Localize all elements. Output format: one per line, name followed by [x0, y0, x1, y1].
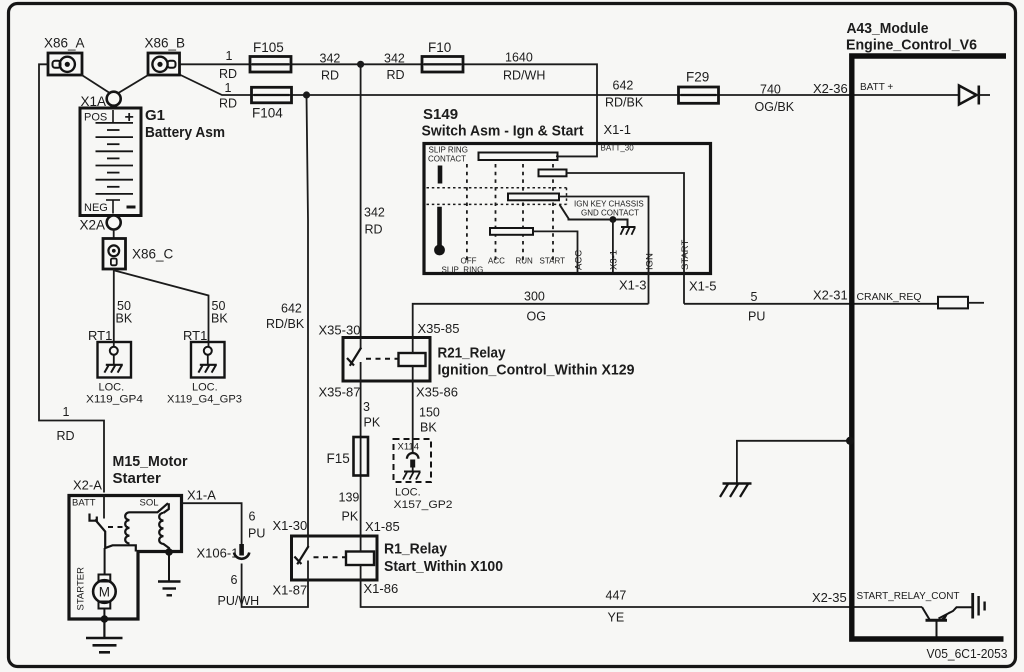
wire 50 BK left to RT1: [114, 269, 133, 347]
wire 342 RD vertical to R21 X35-30: [360, 64, 362, 337]
wire label 642 RD/BK top: [605, 79, 644, 110]
svg-text:X1-1: X1-1: [604, 122, 631, 137]
switch S149 box: [424, 144, 711, 274]
svg-text:STARTER: STARTER: [76, 567, 87, 611]
S149 contact bar ACC: [490, 228, 533, 235]
pin X1-30: [273, 518, 308, 533]
svg-text:X3-1: X3-1: [609, 250, 620, 270]
wire X86_A left drop to M15 X2-A: [39, 64, 104, 492]
svg-text:V05_6C1-2053: V05_6C1-2053: [927, 647, 1008, 661]
A43 transistor supply bars: [973, 593, 985, 619]
svg-text:X119_GP4: X119_GP4: [86, 394, 143, 406]
M15 motor ground: [86, 619, 123, 652]
svg-text:5: 5: [751, 290, 758, 304]
S149 ACC output wire: [533, 231, 585, 272]
wire label 1 RD left drop: [57, 405, 75, 443]
svg-text:X114: X114: [398, 442, 419, 453]
svg-text:X86_A: X86_A: [44, 36, 85, 51]
A43 CRANK_REQ label: [857, 292, 922, 303]
svg-text:1: 1: [226, 49, 233, 63]
wire label 1640 RD/WH: [503, 51, 545, 83]
motor M15 box outline: [69, 496, 182, 620]
A43 crank resistor: [938, 297, 984, 309]
S149 chassis ground symbol: [621, 227, 636, 235]
svg-text:342: 342: [364, 206, 385, 220]
svg-text:X1-A: X1-A: [187, 488, 216, 503]
wire X2A to X86_C: [113, 230, 115, 239]
svg-text:IGN KEY CHASSIS: IGN KEY CHASSIS: [574, 200, 644, 209]
M15 BATT label: [72, 498, 96, 509]
connector X106-1: [197, 544, 250, 561]
node X2A ring terminal: [80, 216, 121, 233]
S149 dashed key zone: [427, 188, 567, 205]
relay R1 labels: [384, 541, 503, 576]
svg-text:RD: RD: [219, 97, 237, 111]
A43 internal ground wire: [737, 441, 849, 484]
svg-text:X2-31: X2-31: [813, 288, 848, 303]
relay R21 labels: [438, 345, 635, 379]
svg-text:LOC.: LOC.: [192, 382, 218, 394]
diagram number V05_6C1-2053: [927, 647, 1008, 661]
svg-text:RD: RD: [365, 223, 383, 237]
M15 solenoid ground: [158, 552, 181, 595]
wire row2 RD from X86_B diagonal to F104 to F29 to A43 BATT: [180, 75, 852, 96]
A43 BATT + label: [860, 82, 893, 93]
svg-text:F104: F104: [252, 106, 283, 121]
S149 dashed position line ACC: [488, 164, 505, 266]
label G1 Battery Asm: [145, 107, 225, 141]
svg-text:X2-35: X2-35: [812, 590, 847, 605]
A43 output transistor: [922, 607, 972, 637]
relay R1 box: [292, 536, 378, 580]
pin X35-86: [416, 385, 458, 400]
svg-text:BK: BK: [420, 421, 437, 435]
M15 starter motor: [93, 575, 116, 620]
svg-text:RD: RD: [321, 69, 339, 83]
svg-text:BATT: BATT: [72, 498, 96, 509]
pin X35-87: [319, 385, 361, 400]
S149 IGN output wire to 300 OG: [559, 197, 656, 304]
relay R21 coil: [399, 338, 426, 382]
wire label 642 RD/BK vertical: [266, 302, 305, 332]
wire label 1 RD row2: [219, 81, 237, 111]
svg-text:NEG: NEG: [84, 202, 108, 214]
svg-text:BK: BK: [116, 312, 133, 326]
wire 150 BK X35-86 to X114: [413, 381, 440, 453]
svg-text:X35-30: X35-30: [319, 323, 361, 338]
svg-text:Start_Within X100: Start_Within X100: [384, 558, 503, 575]
svg-text:6: 6: [231, 573, 238, 587]
svg-text:IGN: IGN: [645, 253, 656, 270]
svg-text:X157_GP2: X157_GP2: [394, 499, 453, 511]
S149 START output wire to X1-5: [567, 173, 692, 304]
svg-text:X35-86: X35-86: [416, 385, 458, 400]
wire 447 YE X1-86 to X2-35: [361, 580, 922, 625]
A43 batt diode: [855, 86, 991, 105]
S149 key gnd contact pointer and line: [560, 205, 628, 228]
pin X35-85: [418, 321, 460, 336]
svg-text:CONTACT: CONTACT: [428, 155, 466, 164]
svg-text:ACC: ACC: [574, 250, 585, 270]
wire 5 PU from X1-5 to X2-31: [684, 290, 938, 324]
svg-text:150: 150: [419, 406, 440, 420]
M15 solenoid coil 2: [159, 503, 169, 552]
connector X86_B: [145, 36, 186, 76]
svg-text:START_RELAY_CONT: START_RELAY_CONT: [857, 591, 960, 602]
svg-text:Switch Asm - Ign & Start: Switch Asm - Ign & Start: [422, 123, 584, 140]
svg-text:X119_G4_GP3: X119_G4_GP3: [167, 394, 242, 406]
wire label 740 OG/BK: [755, 83, 795, 115]
svg-text:ACC: ACC: [488, 257, 505, 266]
svg-text:SLIP_RING: SLIP_RING: [442, 266, 484, 275]
svg-text:Battery Asm: Battery Asm: [145, 124, 225, 141]
wire 642 RD/BK vertical to R1 X1-30: [307, 95, 309, 536]
svg-text:X106-1: X106-1: [197, 546, 239, 561]
fuse F105: [250, 40, 291, 72]
M15 switch to solenoid dashes: [108, 526, 128, 528]
S149 ign key chassis gnd text: [574, 200, 644, 218]
wire 50 BK diagonal to right RT1: [115, 271, 229, 347]
S149 contact bar START feed: [539, 170, 567, 177]
junction node row2 x642: [303, 91, 310, 98]
fuse F104: [252, 87, 292, 120]
node X1A ring terminal: [81, 92, 121, 109]
svg-text:Starter: Starter: [113, 470, 162, 487]
svg-text:A43_Module: A43_Module: [847, 20, 929, 37]
M15 SOL label: [140, 498, 159, 509]
svg-text:F105: F105: [253, 40, 284, 55]
wire 6 PU/WH X106-1 to X1-87: [218, 564, 309, 609]
wire X1-A to X106-1: [182, 503, 266, 544]
chassis ground mid: [720, 484, 752, 498]
svg-text:RD: RD: [387, 68, 405, 82]
svg-text:3: 3: [363, 400, 370, 414]
svg-text:300: 300: [524, 290, 545, 304]
fuse F10: [422, 40, 463, 72]
svg-text:Engine_Control_V6: Engine_Control_V6: [846, 37, 977, 54]
S149 dashed position line RUN: [516, 164, 534, 266]
pin X2-35: [812, 590, 847, 605]
connector X86_A: [44, 36, 85, 76]
relay R1 switch: [294, 536, 308, 580]
svg-text:740: 740: [760, 83, 781, 97]
svg-text:X2-A: X2-A: [73, 478, 102, 493]
svg-text:RD: RD: [219, 67, 237, 81]
svg-text:X2-36: X2-36: [813, 81, 848, 96]
svg-text:X1-87: X1-87: [273, 583, 308, 598]
svg-text:CRANK_REQ: CRANK_REQ: [857, 292, 922, 303]
ground RT1 left: [86, 328, 143, 406]
svg-text:Ignition_Control_Within X129: Ignition_Control_Within X129: [438, 362, 635, 379]
M15 solenoid ground node: [165, 548, 173, 556]
wire diagonal X86_A to X1A: [81, 75, 111, 94]
pin X35-30: [319, 323, 361, 338]
svg-text:LOC.: LOC.: [395, 487, 421, 499]
relay R21 switch: [347, 338, 361, 382]
svg-text:RD/BK: RD/BK: [266, 317, 305, 331]
fuse F15: [327, 437, 369, 476]
svg-text:642: 642: [613, 79, 634, 93]
battery G1: [80, 108, 141, 216]
connector X114 dashed box: [394, 439, 432, 482]
svg-text:OFF: OFF: [461, 257, 477, 266]
M15 solenoid coil 1: [125, 503, 168, 543]
S149 dashed position line START: [540, 164, 566, 266]
S149 X3-1 output wire: [609, 220, 620, 273]
module A43 box: [852, 56, 1006, 639]
svg-text:342: 342: [320, 52, 341, 66]
M15 motor ground node: [101, 615, 109, 623]
connector X86_C: [103, 239, 174, 270]
wire label 342 RD seg1: [320, 52, 341, 83]
svg-text:PK: PK: [364, 416, 381, 430]
svg-text:S149: S149: [423, 106, 458, 123]
svg-text:X1-5: X1-5: [689, 279, 716, 294]
S149 label SLIP_RING: [442, 266, 484, 275]
svg-text:447: 447: [606, 589, 627, 603]
svg-text:M15_Motor: M15_Motor: [113, 453, 188, 470]
svg-text:F29: F29: [686, 70, 709, 85]
svg-text:139: 139: [339, 491, 360, 505]
pin X1-86: [364, 581, 399, 596]
wire label 342 RD vertical: [364, 206, 385, 237]
svg-text:F15: F15: [327, 451, 350, 466]
ground RT1 right: [167, 328, 242, 406]
svg-text:BK: BK: [211, 312, 228, 326]
svg-text:PU: PU: [248, 527, 265, 541]
svg-text:GND CONTACT: GND CONTACT: [581, 209, 639, 218]
svg-text:RT1: RT1: [183, 328, 207, 343]
S149 slip ring bar lower with node: [434, 207, 445, 256]
pin X1-1: [604, 122, 631, 137]
module A43 title: [846, 20, 977, 54]
pin X2-31: [813, 288, 848, 303]
svg-text:POS: POS: [84, 112, 107, 124]
svg-text:R1_Relay: R1_Relay: [384, 541, 448, 558]
svg-text:F10: F10: [428, 40, 451, 55]
wire diagonal X86_B to X1A: [118, 75, 150, 94]
relay R21 box: [343, 338, 430, 382]
svg-text:342: 342: [384, 52, 405, 66]
svg-text:RD/BK: RD/BK: [605, 96, 644, 110]
X114 location label: [394, 487, 453, 512]
svg-text:M: M: [99, 585, 110, 600]
svg-text:BATT_30: BATT_30: [601, 144, 635, 153]
pin X2-36: [813, 81, 848, 96]
svg-text:START: START: [680, 240, 691, 270]
S149 slip ring bar upper: [438, 166, 443, 184]
svg-text:X35-85: X35-85: [418, 321, 460, 336]
svg-text:6: 6: [249, 510, 256, 524]
relay R1 coil: [346, 536, 374, 580]
S149 slip ring contact text: [428, 146, 468, 164]
svg-text:R21_Relay: R21_Relay: [438, 345, 507, 362]
S149 contact bar key zone: [508, 194, 559, 201]
svg-text:YE: YE: [608, 611, 625, 625]
svg-text:RD: RD: [57, 429, 75, 443]
svg-text:1: 1: [63, 405, 70, 419]
svg-text:PU: PU: [748, 310, 765, 324]
switch S149 title: [422, 106, 584, 140]
svg-text:LOC.: LOC.: [99, 382, 125, 394]
S149 contact bar BATT_30: [479, 144, 635, 161]
wire label 1 RD row1: [219, 49, 237, 81]
svg-text:RUN: RUN: [516, 257, 534, 266]
fuse F29: [679, 70, 719, 104]
svg-text:PK: PK: [342, 510, 359, 524]
svg-text:SOL: SOL: [140, 498, 159, 509]
pin X1-5: [689, 279, 716, 294]
svg-text:X1-30: X1-30: [273, 518, 308, 533]
svg-text:X86_B: X86_B: [145, 36, 186, 51]
svg-text:RD/WH: RD/WH: [503, 69, 545, 83]
svg-text:START: START: [540, 257, 566, 266]
pin X1-87: [273, 583, 308, 598]
junction node row1 x342: [357, 61, 364, 68]
svg-text:X1-85: X1-85: [365, 519, 400, 534]
relay R21 coil link dashes: [366, 358, 398, 360]
svg-text:PU/WH: PU/WH: [218, 594, 260, 608]
svg-text:X1-3: X1-3: [619, 278, 646, 293]
svg-text:642: 642: [281, 302, 302, 316]
pin X1-A: [187, 488, 216, 503]
A43 START_RELAY_CONT label: [857, 591, 960, 602]
wire 300 OG from X1-3 to R21 X35-85: [413, 290, 649, 338]
wire row1 RD from X86_B to F105 to F10 to X1-1 drop: [179, 64, 597, 156]
S149 key gnd junction node: [610, 216, 617, 223]
wire 3 PK / 139 PK X35-87 to F15 to X1-85: [339, 381, 381, 536]
pin X1-3: [619, 278, 646, 293]
A43 edge ground node: [846, 437, 854, 445]
svg-text:OG/BK: OG/BK: [755, 100, 795, 114]
svg-text:1640: 1640: [505, 51, 533, 65]
M15 contactor switch: [90, 496, 136, 575]
svg-text:1: 1: [225, 81, 232, 95]
svg-text:OG: OG: [527, 310, 546, 324]
S149 dashed position line OFF: [461, 164, 477, 266]
pin X1-85: [365, 519, 400, 534]
svg-text:X2A: X2A: [80, 218, 106, 233]
motor M15 title: [113, 453, 188, 487]
S149 BATT_30 feed link: [556, 155, 597, 157]
svg-text:G1: G1: [145, 107, 165, 124]
svg-text:SLIP RING: SLIP RING: [429, 146, 468, 155]
relay R1 coil link dashes: [314, 556, 346, 558]
svg-text:X35-87: X35-87: [319, 385, 361, 400]
svg-text:X86_C: X86_C: [132, 247, 174, 262]
M15 STARTER rotated label: [76, 567, 87, 611]
svg-text:BATT +: BATT +: [860, 82, 893, 93]
wire label 342 RD seg2: [384, 52, 405, 83]
svg-text:RT1: RT1: [88, 328, 112, 343]
svg-text:X1-86: X1-86: [364, 581, 399, 596]
pin X2-A: [73, 478, 102, 493]
